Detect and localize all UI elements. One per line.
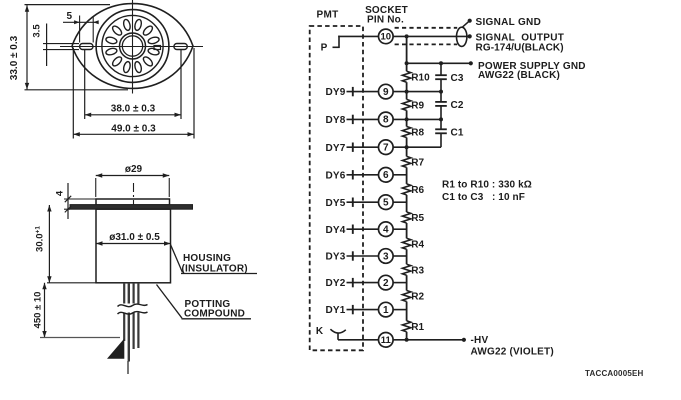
- svg-text:C1 to C3 : 10 nF: C1 to C3 : 10 nF: [442, 192, 525, 203]
- svg-text:COMPOUND: COMPOUND: [184, 309, 245, 320]
- svg-text:C3: C3: [451, 73, 464, 84]
- svg-text:R1 to R10 : 330 kΩ: R1 to R10 : 330 kΩ: [442, 179, 532, 190]
- svg-text:C1: C1: [451, 127, 464, 138]
- svg-text:R5: R5: [411, 213, 424, 224]
- svg-text:R7: R7: [411, 158, 424, 169]
- svg-text:R10: R10: [411, 72, 430, 83]
- svg-text:SIGNAL GND: SIGNAL GND: [476, 17, 542, 28]
- svg-text:5: 5: [67, 11, 73, 22]
- svg-text:DY8: DY8: [325, 115, 345, 126]
- svg-text:TACCA0005EH: TACCA0005EH: [585, 369, 644, 378]
- svg-text:DY9: DY9: [325, 87, 345, 98]
- svg-text:ø31.0 ± 0.5: ø31.0 ± 0.5: [109, 232, 160, 243]
- svg-text:R6: R6: [411, 185, 424, 196]
- svg-text:9: 9: [383, 87, 389, 98]
- svg-text:RG-174/U(BLACK): RG-174/U(BLACK): [476, 42, 564, 53]
- svg-text:2: 2: [383, 278, 389, 289]
- svg-text:DY4: DY4: [325, 225, 345, 236]
- svg-text:R2: R2: [411, 292, 424, 303]
- svg-text:C2: C2: [451, 100, 464, 111]
- svg-text:(INSULATOR): (INSULATOR): [182, 263, 248, 274]
- svg-text:38.0 ± 0.3: 38.0 ± 0.3: [111, 104, 156, 115]
- svg-text:49.0 ± 0.3: 49.0 ± 0.3: [111, 124, 156, 135]
- svg-text:DY7: DY7: [325, 143, 345, 154]
- svg-text:P: P: [321, 43, 328, 54]
- svg-text:AWG22 (VIOLET): AWG22 (VIOLET): [471, 347, 554, 358]
- svg-text:11: 11: [381, 335, 392, 346]
- svg-text:PIN No.: PIN No.: [367, 14, 404, 25]
- svg-text:R3: R3: [411, 265, 424, 276]
- svg-text:6: 6: [383, 170, 389, 181]
- svg-text:1: 1: [383, 305, 389, 316]
- svg-text:AWG22 (BLACK): AWG22 (BLACK): [478, 70, 560, 81]
- svg-text:33.0 ± 0.3: 33.0 ± 0.3: [9, 35, 20, 80]
- svg-text:DY6: DY6: [325, 170, 345, 181]
- svg-text:ø29: ø29: [125, 164, 143, 175]
- svg-text:-HV: -HV: [471, 335, 489, 346]
- svg-text:K: K: [316, 326, 324, 337]
- svg-text:PMT: PMT: [316, 9, 338, 20]
- svg-text:450 ± 10: 450 ± 10: [33, 292, 44, 329]
- svg-text:R4: R4: [411, 239, 424, 250]
- svg-text:DY3: DY3: [325, 252, 345, 263]
- svg-text:DY5: DY5: [325, 198, 345, 209]
- svg-text:4: 4: [55, 190, 66, 196]
- svg-text:10: 10: [381, 32, 392, 43]
- svg-text:8: 8: [383, 115, 389, 126]
- svg-text:DY1: DY1: [325, 305, 345, 316]
- svg-text:4: 4: [383, 225, 389, 236]
- svg-text:R1: R1: [411, 322, 424, 333]
- svg-text:R8: R8: [411, 128, 424, 139]
- svg-text:7: 7: [383, 143, 389, 154]
- svg-text:DY2: DY2: [325, 278, 345, 289]
- svg-text:5: 5: [383, 198, 389, 209]
- svg-text:3: 3: [383, 251, 389, 262]
- svg-text:3.5: 3.5: [32, 24, 43, 38]
- svg-text:R9: R9: [411, 101, 424, 112]
